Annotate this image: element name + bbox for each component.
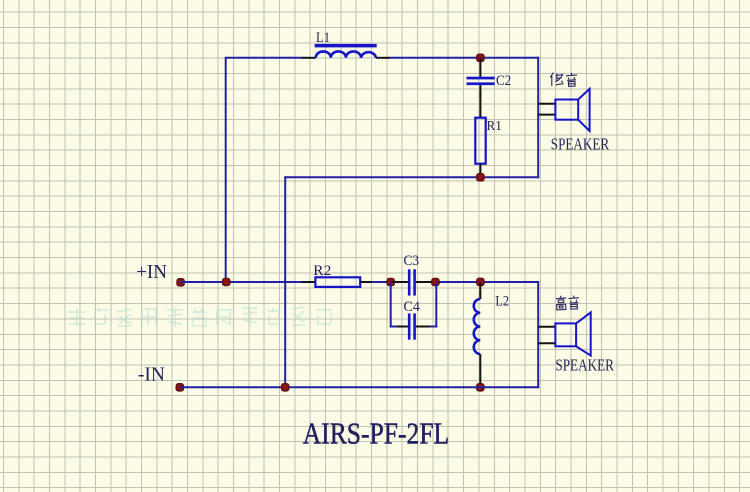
capacitor C2 bottom plate [467,82,495,85]
wire: C3 left pin stub [391,281,408,283]
node: -IN terminal [176,384,183,391]
wire: C2 top pin [479,58,481,77]
svg-text:L1: L1 [316,30,330,46]
speaker LS2 (tweeter) cone [576,312,591,355]
inductor L2 winding [474,299,481,354]
capacitor C4 left plate [408,313,411,339]
wire: +IN bus [180,281,301,283]
wire: R2 right pin stub [360,281,372,283]
wire: top horizontal into L1 left pin [225,57,302,59]
svg-text:AIRS-PF-2FL: AIRS-PF-2FL [303,416,450,451]
watermark row [68,307,332,327]
wire: C3 to L2 to tweeter [431,281,539,283]
speaker LS1 (woofer) cone [578,89,589,131]
wire: L2 bottom pin [479,354,481,387]
svg-text:L2: L2 [495,293,509,309]
wire: C4 branch left horizontal [390,326,397,328]
wire: woofer - stub [538,114,555,116]
node: +IN terminal [177,279,184,286]
capacitor C3 right plate [413,269,416,295]
wire: C4 branch left vertical [390,282,392,328]
wire: C4 branch right vertical [435,282,437,328]
wire: C2-R1 pin [479,85,481,118]
wire: woofer + stub [538,103,555,105]
svg-text:R2: R2 [313,263,331,279]
capacitor C4 right plate [413,313,416,339]
node: junction C3/C4 left [387,278,394,285]
label woofer CJK (low tone) [550,73,577,87]
svg-text:+IN: +IN [136,261,167,283]
wire: C4 right pin stub [416,326,430,328]
wire: tweeter - stub [538,342,555,344]
wire: horizontal under R1 [285,176,539,178]
node: junction -IN / woofer return [282,384,289,391]
wire: tweeter + stub [538,326,555,328]
node: junction R1 bottom / woofer return [477,174,484,181]
capacitor C3 left plate [408,269,411,295]
svg-text:C2: C2 [496,73,511,89]
resistor R1 [475,118,485,164]
svg-text:R1: R1 [487,119,502,134]
resistor R2 [315,277,360,287]
inductor L1 winding [316,51,376,57]
wire: R1 bottom pin [479,164,481,178]
svg-text:C3: C3 [404,253,420,269]
wire: -IN bus [180,386,539,388]
wire: right vertical to woofer [537,57,539,179]
node: junction C3/C4 right [432,278,439,285]
svg-text:C4: C4 [404,299,421,315]
svg-text:-IN: -IN [138,364,165,386]
wire: C4 left pin stub [397,326,408,328]
inductor L1 core bar [315,44,377,48]
wire: right vertical to tweeter [537,281,539,388]
svg-text:SPEAKER: SPEAKER [551,134,609,153]
svg-text:SPEAKER: SPEAKER [555,355,614,374]
wire: C3 right pin stub [416,281,431,283]
wire: L2 top pin [479,282,481,299]
label tweeter CJK (high tone) [556,296,579,310]
capacitor C2 top plate [467,77,495,80]
node: junction L2 bottom [477,384,484,391]
wire: L1 left pin stub [302,57,316,59]
wire: L1 right pin stub [376,57,390,59]
wire: top horizontal from L1 to woofer branch [390,57,539,59]
speaker LS2 (tweeter) body [555,323,576,346]
node: junction +IN / L1 feed [223,278,230,285]
wire: C4 branch right horizontal [430,326,437,328]
wire: woofer return vertical down to -IN bus [284,176,286,387]
wire: top-left vertical from L1 feed down to +IN bus [225,58,227,282]
wire: R2 left pin stub [302,281,316,283]
node: junction L1/C2/woofer [477,54,484,61]
node: junction L2 top [477,278,484,285]
speaker LS1 (woofer) body [555,100,578,120]
wire: R2 to C3 [372,281,391,283]
